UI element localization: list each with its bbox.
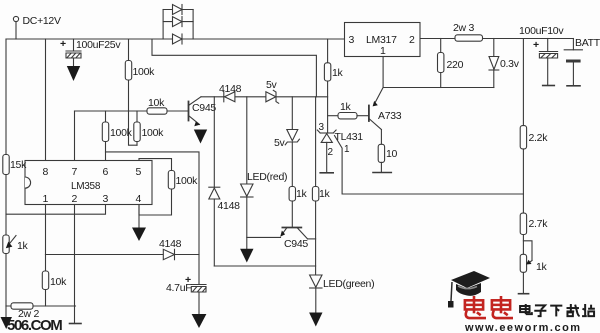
ground bar below battery [567,85,580,87]
svg-text:10k: 10k [50,276,67,288]
resistor R16 100k (feedback) [168,171,174,190]
label 4148 (D9) [159,238,182,250]
svg-text:4.7uF: 4.7uF [166,282,191,294]
wire diode stack left bus [162,10,164,40]
label 100k (right pair) [142,127,165,139]
wire D9 to C3 column [175,254,200,256]
svg-text:LED(green): LED(green) [323,278,374,290]
svg-text:5: 5 [136,166,142,178]
wire pin1 drop [45,205,47,255]
wire left rail tail [5,306,7,317]
svg-text:100uF25v: 100uF25v [76,39,121,51]
svg-text:4148: 4148 [159,238,182,250]
wire diode row 2 [163,21,193,23]
op-amp U1 LM358 box [25,161,152,205]
svg-text:2.7k: 2.7k [529,218,549,230]
label 2w 2 [18,308,39,320]
svg-text:220: 220 [447,59,464,71]
svg-text:LM358: LM358 [71,181,101,192]
wire LM317 pin1 / adj line [383,57,494,88]
svg-text:2w 3: 2w 3 [453,22,474,34]
label 4148 (D5) [218,200,241,212]
label pin 1 [43,193,49,205]
wire R16 to pin4 [139,189,172,215]
label BATT [575,37,600,49]
label 1k (R6) [296,188,308,200]
svg-text:2: 2 [328,147,334,158]
resistor R18 10k [42,271,48,290]
svg-text:0.3v: 0.3v [500,58,520,70]
label 10k (R18) [50,276,67,288]
watermark 虫 (first) [465,296,486,318]
wire pin4 to ground arrow [138,205,140,228]
label 100k (R16) [176,175,199,187]
capacitor C1 100uF25v [66,39,81,66]
wire pin3 to left rail [6,205,106,215]
svg-text:1k: 1k [332,67,344,79]
ground arrow below pin4 [132,228,146,242]
svg-text:+: + [533,39,539,51]
wire pin2 drop [74,205,76,324]
resistor R19 2w2 [11,303,33,309]
label 0.3v [500,58,520,70]
label 2.2k [529,132,549,144]
label 2 (LM317 pin) [409,34,415,46]
wire Q1 collector bus [201,96,328,98]
label pin 7 [72,166,78,178]
wire pin6 node to 4.7uF column [106,152,200,285]
label 5v (Z1) [266,79,278,91]
label 100k (left pair) [110,127,133,139]
resistor R5 100k (right of pair) [134,122,140,142]
diode D5 4148 (vertical, cathode up) [209,187,220,199]
wire 10k column (pin1 bias) [45,255,47,307]
diode D8 0.3v [489,57,499,71]
watermark 506.COM [7,317,62,333]
resistor R13 2.2k [520,126,526,149]
svg-text:1: 1 [43,193,49,205]
wire main +12V rail [6,38,345,40]
svg-text:3: 3 [103,193,109,205]
wire right 100k column [136,111,138,145]
diode D1 (parallel rectifier, top) [173,5,183,15]
label A733 [378,110,402,122]
resistor R14 2.7k [520,213,526,234]
label pin 2 [72,193,78,205]
label pin 3 [103,193,109,205]
svg-text:3: 3 [319,122,325,133]
svg-text:+: + [60,38,66,50]
svg-text:506.COM: 506.COM [7,317,62,333]
svg-text:2: 2 [72,193,78,205]
wire LM358 pin7 riser [74,111,76,161]
label 10k [148,97,165,109]
svg-text:1: 1 [344,144,350,155]
label 3 (LM317 pin) [349,34,355,46]
label + of C2 [533,39,539,51]
svg-text:1k: 1k [340,101,352,113]
wire bus to Z2 [291,97,293,130]
wire R10 to ground [380,162,382,172]
watermark 虫 (second) [492,296,513,318]
wire LED(red) cathode to junction [246,197,248,249]
label + of C3 [185,274,191,286]
svg-text:1: 1 [380,45,386,57]
diode D4 4148 (on collector bus) [224,92,235,102]
ground arrow below LED(green) [309,313,322,327]
wire pin7 to C945 base [75,110,189,112]
resistor R8 1k (from rail) [324,63,330,81]
svg-text:3: 3 [349,34,355,46]
label C945 (Q1) [192,102,216,114]
resistor R11 220 [438,53,444,73]
label TL431 [335,131,364,143]
wire 0.3v diode column [493,39,495,88]
wire LED(green) cathode [315,288,317,313]
LED D6 red [241,184,253,197]
transistor Q2 A733 (PNP) [369,88,383,145]
svg-text:100k: 100k [142,127,165,139]
svg-text:4: 4 [136,193,142,205]
wire left rail [5,39,7,306]
label LM317 [366,34,397,46]
label 100uF25v [76,39,121,51]
resistor R12 2w3 (on output rail) [455,35,483,41]
svg-text:A733: A733 [378,110,402,122]
label LED(green) [323,278,374,290]
resistor R7 1k [312,187,318,202]
wire output rail [420,38,573,40]
diode D3 (parallel rectifier, on rail) [173,34,183,44]
ground arrow below Q1 emitter [194,130,207,144]
label 1k (R9) [340,101,352,113]
svg-text:BATT: BATT [575,37,600,49]
label 10 (R10) [386,148,398,160]
label LM358 [71,181,101,192]
resistor R10 10 [378,144,384,162]
wire bottom 2w2 run [6,305,76,307]
diode D2 (parallel rectifier, middle) [173,17,183,27]
label 1k (R8) [332,67,344,79]
battery BT1 [564,39,582,86]
wire rail to LM358 pin 8 [45,39,47,161]
wire TL431 node to R9 [328,115,338,117]
watermark graduation cap logo [448,271,490,308]
node DC+12V terminal [13,16,18,39]
resistor R2 100k (from rail) [125,61,131,81]
label 1 (LM317 pin) [380,45,386,57]
op-amp U2 LM317 box [345,23,421,57]
svg-text:8: 8 [43,166,49,178]
ground bar below R10 [373,172,391,174]
potentiometer R17 1k [3,235,16,254]
label 4.7uF [166,282,191,294]
ground arrow left rail [1,317,13,329]
transistor Q3 C945 (second) [280,228,315,239]
label 1k (R15) [536,261,548,273]
capacitor C2 100uF10v [539,39,557,86]
svg-text:2: 2 [409,34,415,46]
ground bar TL431 pin2 [320,172,333,174]
label 100uF10v [519,25,564,37]
svg-text:100k: 100k [176,175,199,187]
resistor R3 10k (series to C945 base) [147,108,167,114]
svg-text:1k: 1k [319,188,331,200]
ground bar below pin2 [70,323,82,325]
wire junction to Q3 emitter [247,236,281,238]
label 15k [10,159,27,171]
transistor Q1 C945 (NPN) [189,97,202,126]
label 1 (TL431 pin) [344,144,350,155]
svg-text:5v: 5v [266,79,278,91]
wire 220 column [440,39,442,88]
label 220 (R11) [447,59,464,71]
svg-text:C945: C945 [284,238,308,250]
svg-text:4148: 4148 [218,200,241,212]
diode Z2 5v zener (vertical) [285,130,299,145]
label 5v (Z2) [274,137,286,149]
wire right divider column [522,39,524,294]
svg-text:4148: 4148 [219,83,242,95]
label + of C1 [60,38,66,50]
diode D9 4148 [163,249,174,259]
label 4148 (D4) [219,83,242,95]
ground arrow below LED(red) junction [240,249,253,263]
wire pin1 node to D9 [46,254,164,256]
label 3 (TL431 pin) [319,122,325,133]
label 2 (TL431 pin) [328,147,334,158]
wire left 100k column / pin6 riser [105,111,107,161]
wire bypass column to R7 [315,97,317,187]
wire rail to TL431 column [327,39,329,133]
label 1k (R17) [17,240,29,252]
svg-text:LED(red): LED(red) [247,171,287,183]
LED D7 green [310,275,322,288]
svg-text:5v: 5v [274,137,286,149]
label DC+12V [23,15,61,27]
label 100k (rail) [133,66,156,78]
wire TL431 pin1 to feedback node [335,136,524,195]
label 2w 3 [453,22,474,34]
svg-text:C945: C945 [192,102,216,114]
svg-text:100uF10v: 100uF10v [519,25,564,37]
svg-text:1k: 1k [17,240,29,252]
svg-text:www.eeworm.com: www.eeworm.com [464,322,582,333]
ground bar below C2 [543,85,555,87]
resistor R1 15k [3,155,9,175]
TL431 U3 [317,130,336,173]
wire Z2 to R6 [291,142,293,187]
svg-text:1k: 1k [536,261,548,273]
svg-text:1k: 1k [296,188,308,200]
svg-text:15k: 15k [10,159,27,171]
watermark www.eeworm.com [464,322,582,333]
resistor R4 100k (left of pair) [102,122,108,142]
label 1k (R7) [319,188,331,200]
resistor R9 1k (A733 base) [338,113,357,119]
capacitor C3 4.7uF [191,285,206,315]
ground arrow below C3 [192,314,207,328]
ground bar below R15 [519,293,529,295]
watermark 电子下载站 [520,304,595,316]
wire diode row 1 [163,9,193,11]
svg-text:6: 6 [103,166,109,178]
resistor R6 1k [289,187,295,202]
svg-text:DC+12V: DC+12V [23,15,61,27]
wire bus to D5 anode column [213,97,215,187]
wire pin5 to feedback 100k [139,159,172,171]
wire D5 to bottom bus [213,199,215,266]
label pin 4 [136,193,142,205]
label C945 (Q3) [284,238,308,250]
wire bus to LED(red) [246,97,248,184]
wire R7 to Q3 collector and LED(green) [315,201,317,275]
svg-text:10k: 10k [148,97,165,109]
wire diode stack right bus [192,10,194,40]
wire bypass from rail to A733 emitter column [152,39,316,97]
diode Z1 5v zener (on collector bus) [266,90,279,103]
svg-text:100k: 100k [133,66,156,78]
wire bottom bus [214,265,315,267]
wire R6 to Q3 base [291,201,293,227]
svg-text:10: 10 [386,148,398,160]
label pin 8 [43,166,49,178]
svg-text:TL431: TL431 [335,131,364,143]
svg-text:2.2k: 2.2k [529,132,549,144]
svg-text:7: 7 [72,166,78,178]
label pin 5 [136,166,142,178]
label pin 6 [103,166,109,178]
svg-text:100k: 100k [110,127,133,139]
potentiometer R15 1k [520,241,532,272]
ground arrow below C1 [67,66,80,81]
wire R9 to A733 base [357,115,369,117]
label 2.7k [529,218,549,230]
wire 100k(rail) column with jog to right 100k bottom [129,39,138,145]
label LED(red) [247,171,287,183]
